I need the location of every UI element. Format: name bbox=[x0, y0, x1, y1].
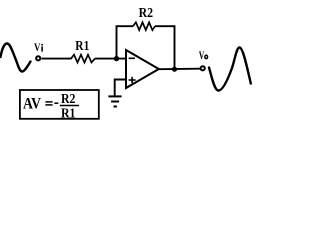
label R1 bbox=[75, 39, 89, 54]
svg-text:R2: R2 bbox=[139, 6, 154, 21]
label Vi bbox=[34, 40, 43, 54]
svg-text:R1: R1 bbox=[75, 39, 89, 54]
resistor R1 bbox=[71, 55, 95, 63]
label R2 bbox=[139, 6, 154, 21]
wire feedback right (R2 down to output node) bbox=[155, 26, 175, 69]
svg-text:V: V bbox=[199, 48, 205, 62]
label Vo bbox=[199, 48, 208, 62]
node Vi input terminal bbox=[36, 56, 40, 60]
op-amp U1 bbox=[126, 50, 159, 88]
resistor R2 bbox=[133, 22, 155, 30]
junction node A (inverting input node) bbox=[114, 56, 119, 61]
wire op-amp output to Vo bbox=[159, 68, 201, 71]
input waveform (source sine) bbox=[1, 44, 31, 72]
wire feedback left (node A up to R2) bbox=[117, 26, 134, 59]
wire non-inverting input to ground bbox=[115, 80, 126, 97]
node Vo output terminal bbox=[201, 66, 205, 70]
junction output node bbox=[172, 67, 177, 72]
svg-text:R1: R1 bbox=[61, 106, 76, 121]
ground bbox=[108, 96, 121, 106]
output waveform (inverted sine) bbox=[209, 48, 251, 91]
formula text AV = -R2/R1 bbox=[23, 92, 79, 121]
svg-text:V: V bbox=[34, 40, 41, 54]
gain formula box bbox=[20, 90, 99, 119]
wire Vi to R1 bbox=[42, 58, 72, 60]
wire R1 to op-amp inverting input bbox=[95, 58, 126, 60]
svg-text:AV: AV bbox=[23, 95, 41, 112]
